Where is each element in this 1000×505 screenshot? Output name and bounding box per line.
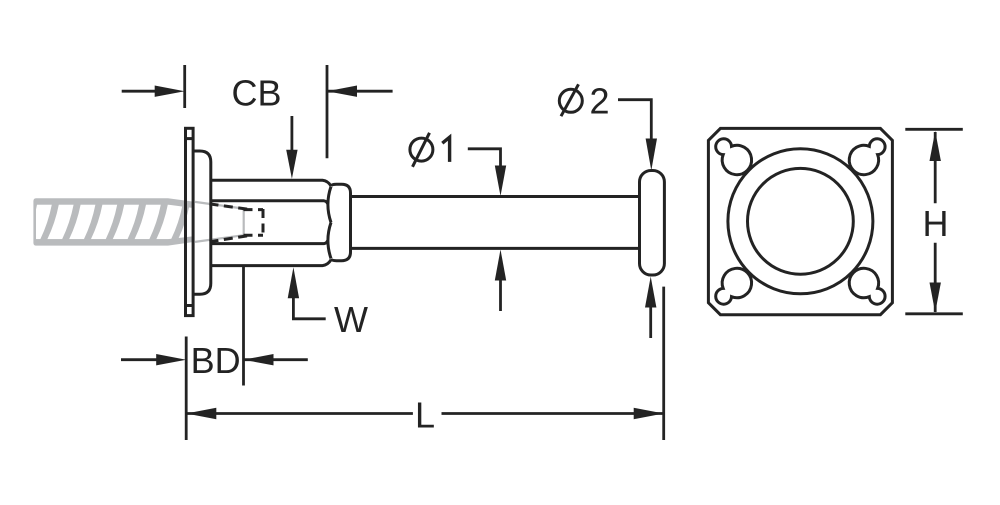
CB extension lines — [183, 65, 186, 108]
outer circle of coil — [728, 149, 873, 294]
BD left arrowhead — [156, 354, 186, 365]
end cap (pill head) — [640, 171, 665, 276]
bell (coil body behind flange) — [193, 151, 211, 294]
H top arrowhead — [930, 131, 941, 161]
Phi2 down arrowhead — [646, 139, 657, 171]
collar (swaged nose) — [331, 184, 351, 260]
W arrowhead — [288, 267, 299, 298]
arrowheads — [155, 86, 941, 420]
H bottom arrowhead — [930, 283, 941, 313]
keyhole bottom-left — [716, 268, 752, 304]
L right arrowhead — [634, 408, 664, 419]
inner circle of coil — [748, 168, 854, 274]
CB arrow lines — [122, 90, 157, 93]
diameter symbol for 1 — [410, 84, 582, 167]
svg-text:2: 2 — [589, 81, 609, 122]
hidden cavity (dashed) — [210, 204, 264, 242]
Phi1 leader — [468, 149, 501, 166]
L right extension line — [662, 287, 665, 440]
H extension lines — [905, 128, 963, 131]
Phi2 lower arrow line — [649, 307, 652, 338]
flange chamfer lines — [184, 137, 193, 140]
label 1 of diameter 1 — [442, 137, 449, 162]
H dimension line — [934, 132, 937, 203]
svg-text:L: L — [415, 394, 435, 435]
CB pointer arrowhead — [286, 150, 297, 179]
square plate with chamfered corners — [708, 128, 892, 314]
Phi2 up arrowhead — [645, 277, 656, 308]
BD/L left extension line — [185, 337, 188, 441]
L dimension line — [186, 412, 413, 415]
keyhole top-right — [849, 139, 885, 175]
L left arrowhead — [186, 408, 216, 419]
BD arrow lines — [121, 358, 158, 361]
Phi1 up arrowhead — [495, 250, 506, 281]
svg-text:W: W — [334, 299, 368, 340]
svg-text:BD: BD — [191, 340, 241, 381]
keyhole top-left — [716, 139, 752, 175]
BD right arrowhead — [244, 354, 274, 365]
white fills of coil insert body — [193, 151, 664, 294]
hidden rebar tip (gray outline inside cavity) — [195, 202, 244, 242]
flange plate (side view) — [184, 128, 664, 315]
CB right arrowhead — [327, 86, 357, 97]
Phi1 lower arrow line — [499, 280, 502, 311]
CB left arrowhead — [155, 86, 185, 97]
barrel outer lines — [210, 180, 332, 186]
svg-text:H: H — [923, 203, 949, 244]
barrel inner (bore) lines — [210, 201, 328, 204]
shaft (pin) lines — [351, 195, 641, 198]
CB pointer arrow line — [290, 116, 293, 151]
W leader — [293, 298, 325, 319]
keyhole bottom-right — [849, 268, 885, 304]
BD right extension line — [242, 266, 245, 386]
diameter symbol for 2 — [559, 89, 582, 112]
rebar rod (gray, hatched) — [26, 198, 227, 245]
Phi1 down arrowhead — [495, 166, 506, 197]
Phi2 leader — [618, 100, 651, 139]
svg-text:CB: CB — [231, 73, 281, 114]
